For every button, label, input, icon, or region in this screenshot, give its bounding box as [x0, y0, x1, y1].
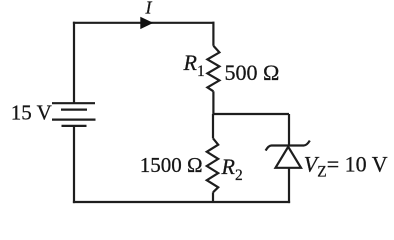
wire right vertical bottom [288, 168, 290, 203]
battery V1 plate 2 [61, 108, 87, 110]
wire below R2 [212, 192, 214, 202]
battery V1 plate 4 [62, 125, 87, 127]
svg-text:500 Ω: 500 Ω [225, 60, 280, 85]
svg-text:R2: R2 [221, 154, 243, 184]
wire right vertical to zener cathode [288, 114, 290, 146]
svg-text:VZ= 10 V: VZ= 10 V [304, 151, 388, 180]
wire middle vertical top [212, 22, 214, 46]
wire left vertical bottom [73, 126, 75, 203]
wire middle between R1 and junction node [212, 91, 214, 115]
wire junction horizontal [213, 113, 289, 115]
wire middle between junction node and R2 [212, 114, 214, 138]
current arrow I [140, 17, 153, 29]
svg-text:15 V: 15 V [11, 100, 52, 124]
svg-text:R1: R1 [183, 50, 205, 80]
battery V1 plate 3 [52, 118, 96, 120]
resistor R1 [207, 46, 219, 92]
resistor R2 [207, 138, 218, 192]
wire left vertical top [73, 22, 75, 103]
zener diode D1 cathode bar [266, 141, 310, 151]
svg-text:I: I [145, 0, 153, 18]
wire top horizontal [73, 22, 215, 24]
battery V1 15 V plate 1 [52, 102, 95, 104]
wire bottom horizontal [73, 201, 290, 203]
svg-text:1500 Ω: 1500 Ω [140, 153, 203, 177]
zener diode D1 anode triangle [276, 147, 302, 168]
